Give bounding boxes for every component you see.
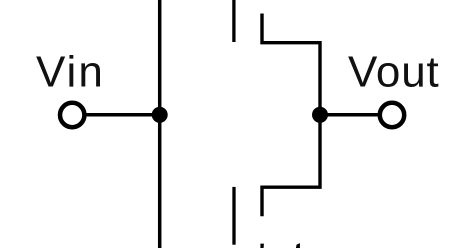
terminal Vin (open circle) bbox=[60, 103, 84, 127]
transistor Q1 channel bar and drain lead to output node bbox=[262, 14, 320, 115]
wire: output node to Vout terminal bbox=[320, 113, 379, 117]
label Vss (clipped at bottom edge): left tip of V bbox=[260, 244, 264, 248]
transistor Q1 (PMOS, top) gate bar bbox=[232, 0, 235, 42]
node: output junction dot bbox=[312, 107, 328, 123]
svg-text:Vin: Vin bbox=[36, 48, 105, 97]
label Vss (clipped at bottom edge): right tip of V bbox=[296, 243, 300, 248]
transistor Q2 gate bar bbox=[232, 187, 235, 245]
svg-text:Vout: Vout bbox=[348, 48, 440, 97]
wire: Vin terminal to gate node bbox=[85, 113, 160, 117]
terminal Vout (open circle) bbox=[380, 103, 404, 127]
transistor Q2 (NMOS, bottom) drain lead from output node and channel bar bbox=[262, 115, 320, 217]
wire: input gate net vertical line bbox=[158, 0, 162, 248]
node: Vin junction dot bbox=[152, 107, 168, 123]
